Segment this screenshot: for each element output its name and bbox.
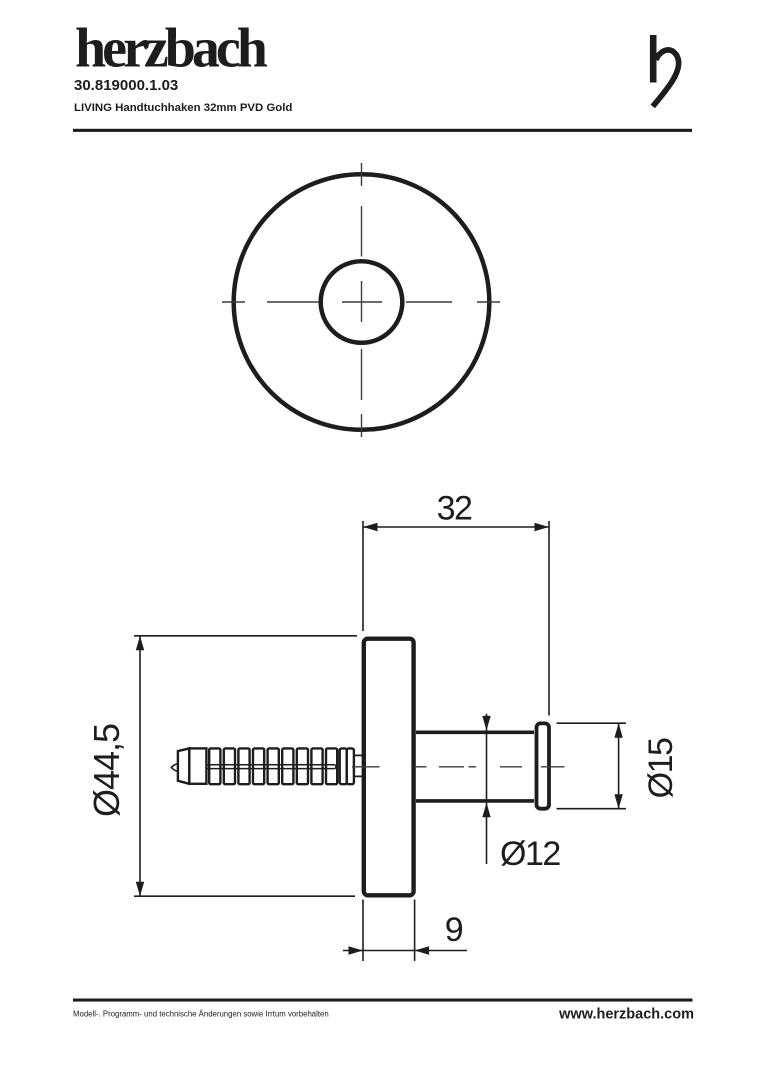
dim 9 dimension line right tail [415, 950, 467, 952]
dim 9 left extension line [362, 900, 364, 962]
header rule [73, 129, 692, 132]
screw neck bottom line [355, 775, 363, 777]
screw neck top line [355, 754, 363, 756]
dim 32 right extension line [548, 521, 550, 716]
dim 44.5 dimension line [139, 636, 141, 896]
dim 44.5 top extension line [134, 635, 357, 637]
svg-text:30.819000.1.03: 30.819000.1.03 [74, 77, 178, 94]
dim 15 dimension line [618, 723, 620, 809]
svg-text:Ø44,5: Ø44,5 [86, 724, 127, 817]
dim 9 dimension line middle [363, 950, 415, 952]
dim 15 bottom arrowhead [614, 794, 622, 809]
dim 44.5 bottom extension line [134, 895, 355, 897]
svg-text:LIVING Handtuchhaken 32mm PVD: LIVING Handtuchhaken 32mm PVD Gold [74, 102, 292, 114]
svg-text:Ø12: Ø12 [500, 835, 560, 873]
dim 32 left arrowhead [363, 523, 378, 531]
hook shaft top line [416, 730, 534, 734]
front view inner circle (hub) [321, 261, 403, 343]
dim 44.5 bottom arrowhead [136, 882, 144, 897]
dim 12 upper arrowhead (points down) [482, 716, 490, 731]
dim 9 left arrowhead (outside, points right) [349, 946, 364, 954]
svg-text:Ø15: Ø15 [642, 738, 680, 798]
hook end cap (Ø15 flange) [537, 723, 550, 808]
front view outer circle (rosette Ø44.5) [234, 174, 490, 430]
wall plug tip beak [171, 764, 178, 771]
wall plug thread ribs [209, 748, 337, 784]
footer rule [73, 999, 693, 1002]
horizontal centerline dashes [222, 301, 245, 303]
screw core shaft [207, 765, 337, 769]
wall plate (rosette side profile) [364, 639, 414, 896]
svg-text:herzbach: herzbach [75, 18, 268, 80]
wall plug collar bar 1 [340, 748, 347, 784]
dim 15 top arrowhead [614, 723, 622, 738]
dim 32 dimension line [363, 526, 549, 528]
svg-text:32: 32 [437, 490, 472, 528]
dim 15 bottom extension line [557, 808, 627, 810]
svg-text:9: 9 [445, 911, 463, 949]
dim 9 right extension line [414, 900, 416, 962]
herzbach h logo mark [653, 35, 679, 107]
dim 9 right arrowhead (outside, points left) [415, 946, 430, 954]
svg-text:Modell-. Programm- und technis: Modell-. Programm- und technische Änderu… [73, 1010, 329, 1019]
wall plug body [189, 748, 206, 783]
vertical centerline dashes [361, 163, 363, 186]
dim 15 top extension line [557, 722, 627, 724]
dim 12 vertical line [486, 714, 488, 864]
wall plug cone head [178, 748, 189, 783]
wall plug collar bar 2 [347, 748, 354, 784]
side view dashed centerline [352, 766, 565, 768]
dim 12 lower arrowhead (points up) [482, 803, 490, 818]
dim 9 dimension line left tail [343, 950, 363, 952]
dim 44.5 top arrowhead [136, 636, 144, 651]
dim 32 right arrowhead [535, 523, 550, 531]
svg-text:www.herzbach.com: www.herzbach.com [558, 1007, 694, 1023]
hook shaft bottom line [416, 799, 534, 803]
dim 32 left extension line [362, 521, 364, 631]
